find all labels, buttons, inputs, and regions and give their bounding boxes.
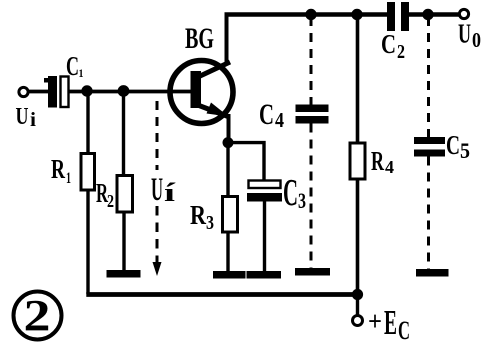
svg-text:C: C: [66, 51, 79, 81]
wire emitter to C3: [228, 143, 264, 181]
ground C4: [295, 268, 330, 276]
svg-text:+: +: [368, 306, 382, 336]
svg-text:5: 5: [460, 138, 470, 163]
wire emitter down: [227, 114, 231, 143]
label R4: [371, 146, 394, 177]
svg-text:0: 0: [472, 28, 481, 52]
ground R2: [107, 270, 141, 278]
svg-text:C: C: [398, 316, 410, 345]
svg-text:E: E: [384, 303, 397, 342]
resistor R3: [223, 197, 238, 233]
svg-text:3: 3: [206, 212, 214, 234]
svg-text:R: R: [190, 200, 206, 230]
svg-text:C: C: [446, 130, 460, 160]
wire bottom supply rail: [86, 292, 357, 297]
capacitor C5: [414, 137, 445, 157]
wire C1 to base of BG: [69, 90, 191, 94]
label C1: [66, 51, 84, 81]
terminal U0 (output, open circle): [459, 9, 468, 18]
svg-text:4: 4: [385, 157, 394, 177]
label BG: [185, 22, 214, 55]
label U0: [458, 19, 481, 53]
wire collector to top rail: [225, 15, 229, 65]
svg-text:2: 2: [107, 191, 114, 211]
wire R1 bottom to supply rail: [86, 190, 89, 294]
svg-text:C: C: [259, 98, 274, 131]
svg-text:U: U: [151, 172, 163, 208]
capacitor C3 (electrolytic: top plate open, bottom solid): [247, 181, 282, 202]
svg-text:R: R: [371, 146, 384, 176]
wire R3 bottom: [226, 232, 229, 272]
figure number 2 (circled): [14, 291, 62, 340]
label Ui': [151, 172, 176, 208]
svg-text:U: U: [16, 104, 29, 130]
resistor R1: [81, 154, 95, 191]
ground C5: [416, 269, 449, 277]
svg-text:í: í: [164, 178, 176, 207]
ground R3: [213, 271, 246, 279]
capacitor C2: [387, 2, 409, 31]
node junction emitter: [223, 137, 234, 148]
wire C5 dashed bottom: [427, 157, 430, 270]
wire top rail left segment: [225, 12, 389, 17]
wire input terminal to C1: [28, 90, 49, 94]
label Ui: [16, 104, 37, 131]
capacitor C4: [296, 105, 329, 124]
svg-text:BG: BG: [185, 22, 214, 55]
svg-text:R: R: [51, 154, 65, 184]
ground C3: [247, 271, 282, 279]
label C2: [381, 29, 405, 63]
node junction rail-R4: [351, 9, 362, 20]
node junction base-R1: [81, 85, 92, 96]
wire R1 top: [86, 92, 89, 155]
node junction rail-Ec: [352, 289, 363, 300]
label R3: [190, 200, 214, 234]
svg-text:2: 2: [24, 291, 51, 340]
label C4: [259, 98, 284, 132]
node junction rail-C4: [305, 9, 316, 20]
arrow Ui' (dashed measuring arrow): [153, 101, 162, 276]
transistor BG: [170, 61, 233, 124]
wire C3 bottom: [263, 201, 266, 272]
svg-text:3: 3: [298, 188, 306, 213]
terminal Ui (input, open circle): [19, 87, 28, 96]
resistor R4: [350, 143, 365, 179]
terminal +Ec (open circle): [353, 316, 363, 326]
svg-text:1: 1: [66, 170, 71, 187]
svg-text:1: 1: [79, 66, 84, 80]
node junction base-R2: [118, 85, 130, 97]
wire to +Ec terminal: [356, 295, 359, 316]
wire R2 bottom: [122, 212, 125, 271]
label R2: [96, 178, 114, 211]
wire R2 top: [122, 92, 125, 177]
label R1: [51, 154, 71, 187]
wire R4 top: [356, 15, 360, 145]
wire top rail right segment: [409, 12, 460, 17]
wire C4 dashed top: [310, 17, 313, 105]
node junction rail-C5: [422, 9, 433, 20]
label C3: [283, 172, 306, 214]
capacitor C1 (electrolytic: left plate solid, right plate open): [44, 76, 69, 108]
wire C4 dashed bottom: [310, 124, 313, 269]
svg-text:C: C: [283, 172, 298, 214]
wire C5 dashed top: [427, 17, 430, 137]
label +Ec: [368, 303, 410, 345]
wire R3 top: [226, 143, 229, 197]
label C5: [446, 130, 470, 163]
svg-text:U: U: [458, 19, 471, 49]
resistor R2: [117, 176, 133, 213]
svg-text:2: 2: [397, 41, 405, 63]
svg-text:i: i: [30, 109, 36, 131]
wire R4 bottom to +Ec node: [356, 179, 360, 294]
svg-text:4: 4: [275, 108, 284, 132]
svg-text:C: C: [381, 29, 396, 59]
